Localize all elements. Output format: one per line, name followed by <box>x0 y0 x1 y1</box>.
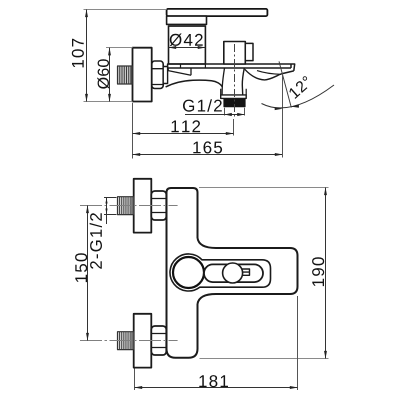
threaded inlet pipe (side view) <box>118 66 133 84</box>
dimension 150 <box>88 206 103 341</box>
12 degree vertical reference / 165 extension <box>282 74 284 158</box>
lever handle base <box>167 16 207 24</box>
tick at slant end <box>190 68 192 75</box>
spout tip underside <box>281 71 294 74</box>
dimension 165 <box>133 141 283 154</box>
slot tab <box>242 269 250 275</box>
slot ball <box>223 263 243 283</box>
dimension 107 extension lines <box>84 10 167 102</box>
dimension Ø60 extension tick <box>106 47 133 49</box>
slot pill <box>204 264 263 282</box>
bottom silhouette curve <box>166 80 223 87</box>
lower inlet threaded pipe <box>118 332 134 350</box>
outlet collar <box>221 95 247 99</box>
label 12 degrees <box>290 76 308 99</box>
upper inlet flange disc <box>134 179 152 233</box>
dimension 112 <box>133 120 234 133</box>
12 degree slanted reference line <box>279 61 291 107</box>
dimension 190 extension lines <box>199 188 329 359</box>
12 degree arc <box>262 85 335 108</box>
upper inlet hex nut <box>151 191 166 220</box>
nut facet lines <box>152 69 164 85</box>
cartridge cylinder body <box>169 26 206 64</box>
dimension 2-G1/2 <box>75 198 116 283</box>
diverter block <box>224 42 246 65</box>
hex nut (side view) <box>152 61 164 89</box>
adapter ring <box>163 67 167 84</box>
upper inlet threaded pipe <box>118 197 134 215</box>
collar side lips <box>221 89 247 95</box>
upper inlet centerline <box>80 205 178 207</box>
dimension 181 extension lines <box>135 296 298 390</box>
spout tip inner line <box>257 71 281 75</box>
12 degree arc arrows <box>275 107 283 110</box>
handle pivot circle <box>173 257 204 288</box>
dimension Ø42 <box>169 34 206 48</box>
horizontal bar body <box>198 238 298 304</box>
label G1/2 with leader <box>183 99 245 116</box>
diverter block rear <box>245 43 253 60</box>
dimension 112 extension lines <box>133 103 234 159</box>
lower inlet hex nut <box>151 326 166 355</box>
wall flange disc (side view) <box>133 48 152 102</box>
deck bar <box>168 64 295 71</box>
outlet right edge from deck <box>242 68 244 95</box>
deck division ticks <box>181 64 206 68</box>
dimension Ø60 <box>97 48 109 102</box>
dimension 107 <box>72 10 87 102</box>
outlet left edge from deck <box>222 68 224 95</box>
dimension 181 <box>135 375 298 387</box>
right underside sweep <box>245 69 281 80</box>
outlet thread G1/2 (black) <box>224 99 245 106</box>
lower inlet centerline <box>80 340 178 342</box>
body edge stub and inner slant <box>168 68 191 75</box>
lever handle bar <box>167 9 268 16</box>
body slab <box>167 188 198 358</box>
lower inlet flange disc <box>134 314 152 368</box>
keyhole boss outline <box>170 254 271 291</box>
dimension 190 <box>312 188 325 359</box>
outlet centerline (dash-dot) <box>234 44 236 118</box>
